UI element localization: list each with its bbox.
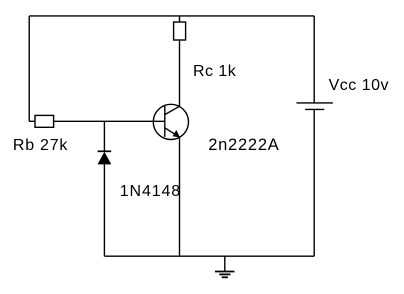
wire top rail [29,15,314,17]
transistor Q1 base bar [164,106,166,137]
svg-text:Vcc 10v: Vcc 10v [329,77,389,94]
ground bar 3 [222,276,228,278]
battery V1 Vcc negative plate [305,108,324,110]
diode D1 1N4148 cathode bar [98,150,112,152]
transistor Q1 collector lead [165,106,180,114]
battery V1 Vcc positive plate [297,102,333,104]
wire collector (Rc to transistor) [179,40,181,106]
wire emitter to bottom rail [179,137,181,256]
ground stem [224,256,226,271]
wire left vertical (Rb to top rail) [28,16,30,121]
ground bar 2 [219,273,230,275]
wire diode anode to bottom rail [103,164,105,256]
ground bar 1 [215,271,235,273]
wire base (Rb to transistor base) [54,120,165,122]
svg-text:Rc 1k: Rc 1k [193,63,237,80]
svg-text:2n2222A: 2n2222A [208,136,279,154]
transistor Q1 emitter lead [165,128,180,137]
wire battery - to bottom rail [313,109,315,256]
wire right vertical (top rail to battery +) [313,16,315,103]
wire bottom rail [104,255,314,257]
wire left corner stub into Rb [29,120,35,122]
wire top rail into Rc [179,16,181,22]
diode D1 1N4148 anode triangle [98,152,112,165]
svg-text:Rb 27k: Rb 27k [13,137,68,154]
resistor Rb 27k (box) [35,115,54,127]
node diode tap junction [103,121,105,151]
svg-text:1N4148: 1N4148 [120,183,181,200]
transistor Q1 2n2222A circle [153,104,188,139]
resistor Rc 1k (box) [174,22,186,40]
transistor Q1 emitter arrowhead [173,130,180,137]
